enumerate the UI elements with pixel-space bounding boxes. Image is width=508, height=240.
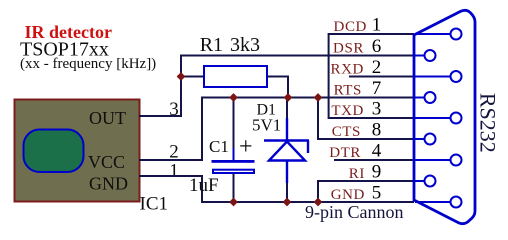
svg-text:GND: GND bbox=[331, 187, 365, 203]
svg-text:(xx - frequency [kHz]): (xx - frequency [kHz]) bbox=[20, 56, 156, 72]
pin line 6 bbox=[415, 55, 424, 57]
svg-text:3k3: 3k3 bbox=[230, 34, 260, 56]
svg-text:+: + bbox=[239, 134, 253, 160]
pin circle 2 bbox=[451, 71, 462, 82]
wire pin2 VCC horizontal bbox=[139, 159, 202, 161]
wire TXD row bbox=[329, 117, 414, 119]
junction node RTS/CTS bbox=[314, 93, 323, 102]
wire vertical OUT riser x=181 bbox=[180, 55, 182, 118]
svg-text:5: 5 bbox=[372, 183, 382, 204]
svg-text:1: 1 bbox=[169, 161, 179, 182]
wire VCC / RTS row bbox=[201, 97, 414, 99]
svg-text:7: 7 bbox=[372, 78, 382, 99]
pin circle 7 bbox=[425, 92, 436, 103]
IR sensor lens bbox=[24, 130, 84, 173]
zener D1 bottom lead blue bbox=[286, 161, 288, 184]
capacitor C1 bbox=[212, 148, 255, 173]
wire pin1 GND horizontal bbox=[139, 175, 202, 177]
svg-text:5V1: 5V1 bbox=[252, 116, 281, 135]
capacitor C1 top lead blue bbox=[233, 148, 235, 161]
wire vertical R1 to VCC node x=288 bbox=[287, 76, 289, 98]
wire DCD row bbox=[329, 33, 414, 35]
svg-text:OUT: OUT bbox=[89, 108, 126, 128]
junction node OUT/R1 bbox=[177, 72, 186, 81]
svg-text:9-pin Cannon: 9-pin Cannon bbox=[305, 202, 404, 222]
zener D1 cathode bar bbox=[264, 139, 309, 141]
svg-text:3: 3 bbox=[372, 99, 382, 120]
svg-text:RXD: RXD bbox=[331, 62, 364, 78]
pin line 8 bbox=[415, 138, 424, 140]
pin line 5 bbox=[415, 201, 450, 203]
svg-text:C1: C1 bbox=[209, 137, 229, 156]
junction node D1/GND bbox=[283, 198, 292, 207]
wire CTS row bbox=[317, 138, 414, 140]
wire vertical RTS-CTS x=318 bbox=[317, 98, 319, 141]
capacitor C1 top plate bbox=[212, 160, 255, 163]
IC1 TSOP17xx body bbox=[15, 100, 140, 202]
svg-text:RTS: RTS bbox=[334, 83, 362, 99]
resistor R1 bbox=[204, 66, 267, 87]
wire GND rail bbox=[201, 201, 414, 203]
wire RXD row bbox=[349, 76, 414, 78]
pin circle 9 bbox=[425, 176, 436, 187]
pin line 3 bbox=[415, 117, 450, 119]
wire vertical VCC riser x=202 bbox=[201, 97, 203, 162]
svg-text:RS232: RS232 bbox=[476, 93, 501, 153]
junction node C1/GND bbox=[229, 198, 238, 207]
pin circle 3 bbox=[451, 113, 462, 124]
zener D1 top lead blue bbox=[286, 118, 288, 141]
capacitor C1 bottom plate bbox=[213, 170, 254, 173]
pin circle 6 bbox=[425, 50, 436, 61]
wire RI row bbox=[317, 180, 414, 182]
wire capacitor top lead upper bbox=[233, 98, 235, 151]
pin line 2 bbox=[415, 76, 450, 78]
svg-text:6: 6 bbox=[372, 36, 382, 57]
DB9 connector outline bbox=[414, 10, 475, 223]
svg-text:2: 2 bbox=[372, 57, 382, 78]
svg-text:DSR: DSR bbox=[333, 41, 364, 57]
pin circle 1 bbox=[451, 29, 462, 40]
wire capacitor bottom lead bbox=[233, 174, 235, 202]
svg-text:IC1: IC1 bbox=[140, 194, 169, 215]
pin line 4 bbox=[415, 159, 450, 161]
wire DTR row bbox=[334, 159, 414, 161]
svg-text:DTR: DTR bbox=[329, 145, 361, 161]
pin line 9 bbox=[415, 180, 424, 182]
svg-text:4: 4 bbox=[372, 141, 382, 162]
wire DSR row from OUT bbox=[180, 55, 414, 57]
wire R1 right lead bbox=[267, 76, 288, 78]
zener D1 bar tick bbox=[307, 141, 309, 154]
wire R1 left lead bbox=[181, 76, 204, 78]
wire pin3 OUT horizontal bbox=[139, 115, 181, 117]
svg-text:CTS: CTS bbox=[332, 124, 361, 140]
svg-text:RI: RI bbox=[349, 166, 365, 182]
pin line 1 bbox=[415, 33, 450, 35]
svg-text:GND: GND bbox=[89, 174, 128, 194]
svg-text:1: 1 bbox=[372, 15, 382, 36]
svg-text:9: 9 bbox=[372, 162, 382, 183]
svg-text:R1: R1 bbox=[200, 34, 223, 56]
svg-text:8: 8 bbox=[372, 120, 382, 141]
wire zener top lead bbox=[286, 98, 288, 120]
junction node C1/VCC bbox=[229, 93, 238, 102]
svg-text:TXD: TXD bbox=[331, 103, 364, 119]
wire vertical RI-GND x=318 bbox=[317, 181, 319, 202]
zener D1 triangle bbox=[269, 142, 305, 161]
pin circle 8 bbox=[425, 134, 436, 145]
junction node RI/GND bbox=[314, 198, 323, 207]
wire vertical DCD-TXD x=328.6 bbox=[328, 33, 330, 119]
svg-text:1uF: 1uF bbox=[189, 175, 219, 196]
pin circle 4 bbox=[451, 155, 462, 166]
svg-text:VCC: VCC bbox=[88, 152, 125, 172]
junction node D1/VCC bbox=[284, 93, 293, 102]
svg-text:DCD: DCD bbox=[334, 19, 367, 35]
pin circle 5 bbox=[451, 197, 462, 208]
pin line 7 bbox=[415, 97, 424, 99]
zener diode D1 bbox=[264, 118, 309, 183]
wire zener bottom lead lower bbox=[286, 182, 288, 202]
wire vertical GND drop x=202 bbox=[201, 175, 203, 203]
